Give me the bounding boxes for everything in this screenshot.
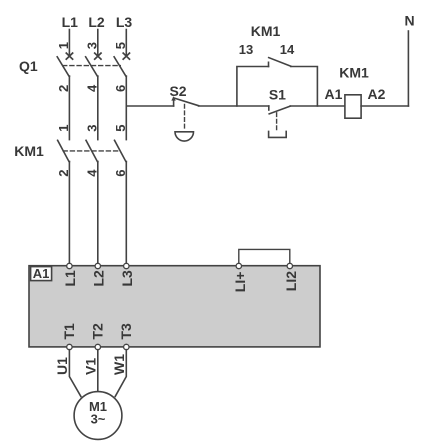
svg-text:A1: A1 <box>325 86 343 102</box>
svg-text:1: 1 <box>56 125 71 132</box>
svg-text:T3: T3 <box>118 323 134 340</box>
svg-text:14: 14 <box>280 42 295 57</box>
svg-text:3: 3 <box>84 42 99 49</box>
svg-text:L1: L1 <box>62 14 79 30</box>
svg-text:L1: L1 <box>62 270 78 287</box>
svg-text:KM1: KM1 <box>251 23 281 39</box>
svg-text:LI2: LI2 <box>283 271 299 291</box>
svg-text:N: N <box>404 13 414 29</box>
svg-text:U1: U1 <box>54 357 70 375</box>
svg-text:Q1: Q1 <box>19 58 38 74</box>
svg-text:T1: T1 <box>61 323 77 340</box>
svg-text:4: 4 <box>84 84 99 92</box>
svg-text:A1: A1 <box>33 266 50 281</box>
svg-text:LI+: LI+ <box>232 272 248 293</box>
svg-text:3: 3 <box>84 125 99 132</box>
svg-text:S2: S2 <box>169 83 186 99</box>
svg-text:2: 2 <box>56 85 71 92</box>
svg-text:KM1: KM1 <box>14 143 44 159</box>
svg-text:A2: A2 <box>368 86 386 102</box>
svg-text:V1: V1 <box>82 358 98 375</box>
svg-text:6: 6 <box>113 170 128 177</box>
svg-text:L2: L2 <box>90 270 106 287</box>
svg-text:5: 5 <box>113 125 128 132</box>
svg-text:S1: S1 <box>269 87 286 103</box>
svg-text:KM1: KM1 <box>339 65 369 81</box>
svg-text:W1: W1 <box>111 354 127 375</box>
svg-text:L2: L2 <box>88 14 105 30</box>
svg-text:4: 4 <box>84 169 99 177</box>
svg-text:T2: T2 <box>89 323 105 340</box>
svg-text:5: 5 <box>113 42 128 49</box>
svg-text:2: 2 <box>56 170 71 177</box>
svg-text:L3: L3 <box>119 270 135 287</box>
svg-text:1: 1 <box>56 42 71 49</box>
svg-text:13: 13 <box>239 42 253 57</box>
svg-text:L3: L3 <box>116 14 133 30</box>
svg-text:3~: 3~ <box>91 412 106 427</box>
svg-text:6: 6 <box>113 85 128 92</box>
